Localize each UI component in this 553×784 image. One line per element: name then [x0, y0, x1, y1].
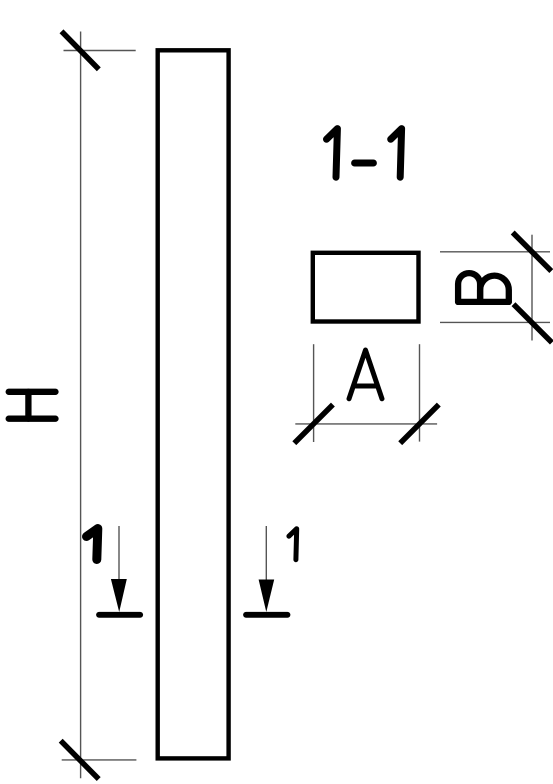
- label A: [349, 350, 382, 399]
- column elevation outline: [158, 50, 229, 758]
- dash: [355, 160, 374, 167]
- section title 1-1: [327, 129, 402, 178]
- digit 1 (left): [327, 129, 338, 178]
- section cut mark left: label 1 (bold): [87, 529, 98, 560]
- dimension A: right extension line: [419, 344, 421, 441]
- label H (rotated): [9, 392, 56, 419]
- dimension B: top tick slash: [513, 233, 552, 272]
- section cut mark right: cut plane bar: [246, 612, 288, 618]
- section cut mark right: arrowhead: [259, 580, 275, 613]
- section cut mark right: label 1: [289, 529, 297, 560]
- dimension A: left tick slash: [294, 405, 333, 444]
- cross-section rectangle: [313, 253, 419, 322]
- section cut mark left: cut plane bar: [99, 612, 140, 618]
- dimension B: vertical dimension line: [531, 235, 533, 341]
- label B (rotated): [458, 273, 509, 302]
- section cut mark right: leader line: [265, 526, 267, 582]
- section cut mark left: arrowhead: [111, 579, 127, 612]
- dimension H: bottom tick slash: [61, 741, 99, 779]
- dimension H: top tick slash: [62, 31, 99, 69]
- dimension B: top extension line: [440, 251, 550, 253]
- section cut mark left: leader line: [118, 526, 120, 582]
- dimension H: bottom extension line: [62, 759, 137, 761]
- dimension H: top extension line: [64, 50, 136, 52]
- digit 1 (right): [391, 129, 402, 178]
- dimension A: dimension line: [295, 423, 437, 425]
- dimension H: vertical dimension line: [80, 32, 82, 779]
- dimension B: bottom tick slash: [514, 304, 552, 342]
- dimension A: right tick slash: [400, 405, 439, 444]
- dimension B: bottom extension line: [440, 321, 550, 323]
- dimension A: left extension line: [313, 344, 315, 442]
